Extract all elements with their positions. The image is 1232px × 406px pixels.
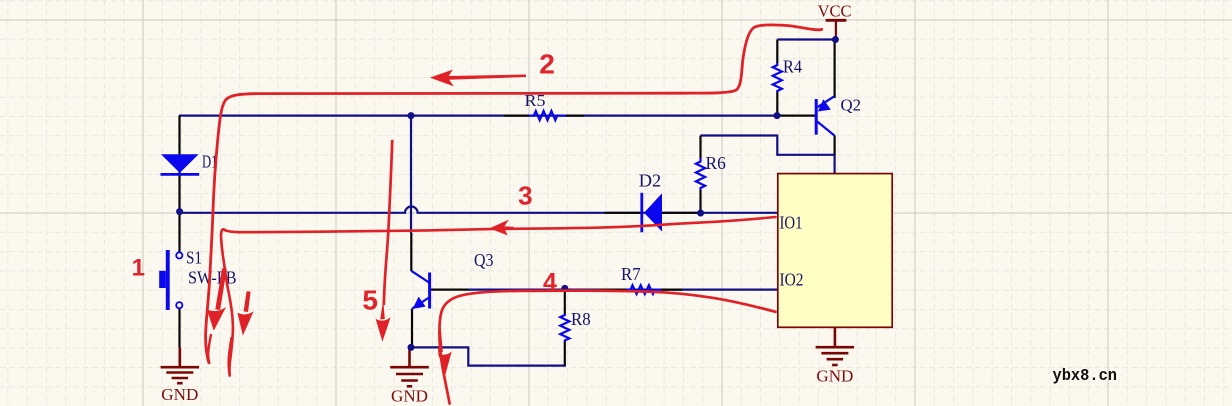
svg-text:GND: GND [391,386,428,405]
ground GND1 [161,347,200,383]
wire H1: top horizontal net from D1 top to R4/Q2 base node [179,114,777,116]
wire Q2 collector to IC box top pin [833,154,835,174]
pin Q3 emitter [411,309,413,348]
annotation curve 5 (vertical through wires) [384,141,392,304]
svg-text:ybx8.cn: ybx8.cn [1053,366,1118,385]
svg-text:VCC: VCC [818,1,852,20]
pin D1 top / D1 bottom / S1 top (vertical black pin column) [178,116,180,252]
pin R5 left [504,114,529,116]
node D2/R6/IO1 node [697,210,704,217]
pin R8 bottom [564,341,566,366]
wire VCC node to R4 top [777,38,835,40]
pin D2 left [604,212,641,214]
annotation tail below arrow R [229,338,232,376]
svg-text:IO1: IO1 [780,213,803,233]
annotation curve 4 (IO2 to left, down to bottom) [439,291,775,404]
annotation arrow 4 (points down) [438,321,452,375]
VCC symbol [826,20,847,39]
diode D2 [642,193,662,233]
node R4/Q2 base node [774,112,781,119]
svg-text:Q3: Q3 [474,250,494,270]
annotation curve 3 (IO1 to left, hook down near S1) [221,217,775,376]
node D1/S1/H2 node [176,208,183,215]
pin Q2 collector [833,135,835,155]
resistor R8 [560,314,569,341]
svg-text:S1: S1 [186,248,202,268]
pin R8 top [564,288,566,314]
pin S1 bottom to GND1 [178,308,180,348]
svg-text:4: 4 [543,268,557,296]
transistor Q3 (NPN, mirrored) [411,271,429,309]
wire V2: vertical net from H1 junction down to Q3 collector [410,116,412,233]
svg-text:GND: GND [816,366,853,385]
svg-text:R7: R7 [621,264,641,284]
pin R4 top [776,40,778,64]
svg-text:SW-PB: SW-PB [188,267,237,287]
annotation tail below arrow L [208,335,211,363]
svg-text:5: 5 [362,284,378,315]
svg-text:1: 1 [132,254,145,281]
node R7/R8/Q3 base node [561,285,568,292]
svg-text:3: 3 [518,181,532,211]
pin R7 right [661,289,682,291]
annotation curve 2 (VCC hook, long horizontal, descends to GND1) [206,25,822,363]
pin R6 top [699,136,701,159]
svg-text:IO2: IO2 [780,270,804,290]
wire H2: mid horizontal net from D1/S1 node to IO1 with hop over vertical wire [179,207,778,213]
annotation arrow 3 (points left) [489,220,513,236]
resistor R6 [696,158,705,190]
svg-text:2: 2 [539,49,555,80]
resistor R5 [529,111,566,120]
wire H3: Q3 base to R7 to IO2 [468,289,778,291]
resistor R4 [773,63,782,92]
pin R4 bottom [776,92,778,116]
svg-text:R6: R6 [706,153,727,173]
annotation arrow R near S1 (points down) [237,291,253,335]
svg-text:Q2: Q2 [841,96,862,115]
pin R5 right [565,114,584,116]
node Q3 emitter/GND node [408,344,415,351]
ground GND2 [390,347,429,386]
wire L-shape: Q3 emitter node to R8 bottom [411,347,566,365]
pin Q3 collector [410,233,412,271]
IC box U1 [778,174,892,328]
annotation arrow L near S1 (points down) [207,268,227,331]
transistor Q2 (PNP) [816,96,834,135]
svg-text:R8: R8 [571,309,591,329]
pin Q2 emitter (to VCC node) [833,40,835,99]
wire R6 top jog to Q2 collector line [701,136,834,155]
node H1/V2 node [408,112,415,119]
node VCC/R4/Q2 node [832,36,839,43]
ground GND3 [816,327,855,365]
pin R7 left [599,289,626,291]
annotation arrow 2 (points left) [430,70,526,87]
annotation arrow 5 (points down) [376,300,391,342]
resistor R7 [626,285,661,294]
diode D1 [161,154,200,174]
switch S1 (SW-PB) [159,250,182,310]
pin R6 bottom [699,190,701,213]
pin D2 right [662,212,698,214]
svg-text:GND: GND [161,385,198,404]
pin Q3 base [431,289,469,291]
svg-text:R4: R4 [783,57,802,77]
svg-text:D2: D2 [639,171,661,191]
pin Q2 base [777,114,815,116]
